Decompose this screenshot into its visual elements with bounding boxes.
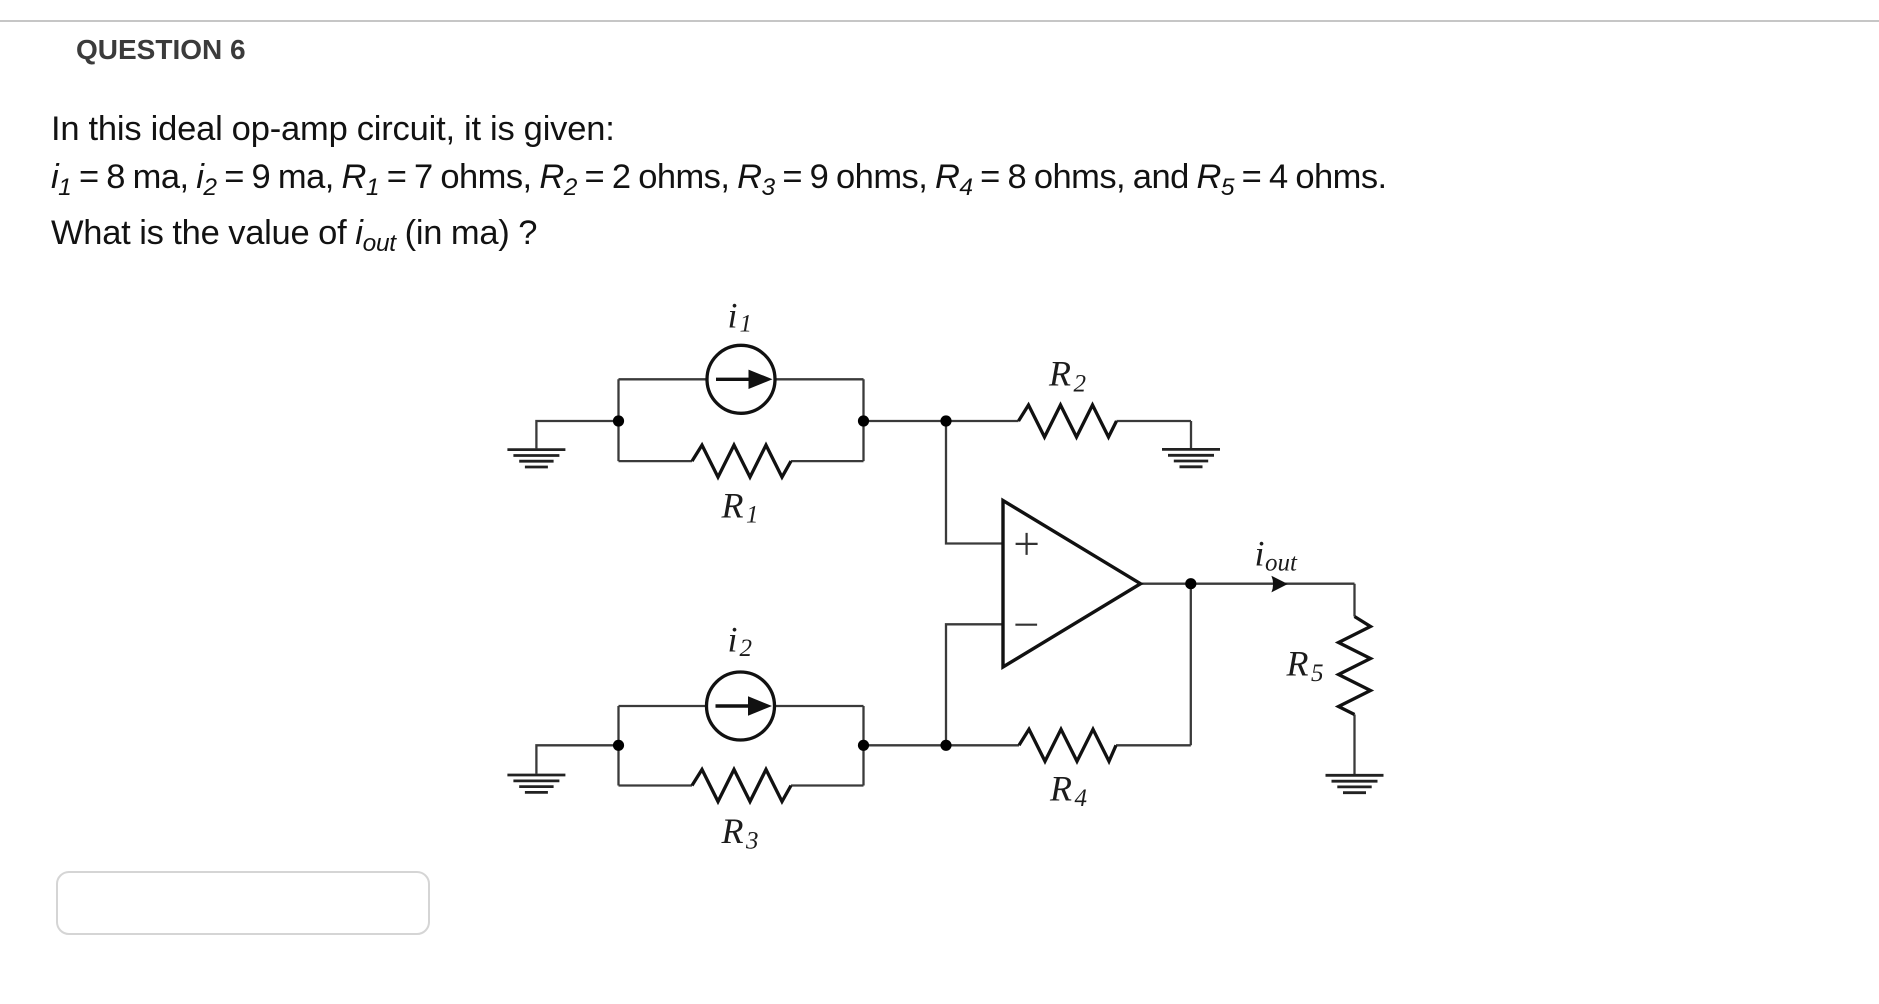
svg-text:R: R <box>721 811 744 851</box>
resistor R5 <box>1339 617 1371 715</box>
resistor R3 <box>692 770 791 802</box>
op-amp minus pin marker <box>1015 624 1037 626</box>
ground bottom-left <box>507 775 565 792</box>
svg-text:i: i <box>728 620 738 660</box>
resistor R2 <box>1019 405 1117 437</box>
wire bottom node line to R4 <box>864 744 1191 746</box>
svg-text:R: R <box>1048 354 1071 394</box>
body text line 1 <box>51 112 615 147</box>
svg-text:2: 2 <box>740 635 753 662</box>
svg-text:R: R <box>1286 644 1309 684</box>
top divider rule <box>0 20 1879 22</box>
wire bottom parallel-block rectangle <box>619 706 864 786</box>
op-amp plus pin marker <box>1016 533 1038 555</box>
node dot top-right of block1 <box>858 415 869 426</box>
svg-text:i: i <box>1255 534 1265 574</box>
node dot noninverting branch <box>940 415 951 426</box>
svg-text:i: i <box>728 296 738 336</box>
answer input box <box>56 871 430 935</box>
wire ground stub bottom-left <box>536 745 618 774</box>
svg-text:R: R <box>1049 769 1072 809</box>
wire output node to R4 vertical <box>1190 584 1192 746</box>
wire top parallel-block rectangle <box>619 379 864 461</box>
iout arrowhead <box>1271 576 1287 593</box>
svg-text:4: 4 <box>1075 785 1088 812</box>
ground top-right <box>1162 449 1220 466</box>
svg-text:1: 1 <box>740 311 753 338</box>
wire ground stub top-left <box>536 421 618 448</box>
node dot bottom-left <box>613 740 624 751</box>
ground top-left <box>507 450 565 467</box>
current source i1 <box>707 345 775 413</box>
op-amp U1 <box>1003 501 1141 668</box>
wire inverting branch <box>946 624 1003 745</box>
wire R5 to ground <box>1353 715 1355 775</box>
body text line 3 <box>51 216 537 262</box>
wire op-amp output to R5 <box>1141 584 1355 617</box>
wire top node line to R2 and to right ground <box>864 421 1192 448</box>
svg-text:3: 3 <box>745 828 759 855</box>
heading QUESTION 6 <box>76 36 246 64</box>
resistor R4 <box>1019 729 1116 761</box>
current source i2 <box>707 672 775 740</box>
node dot inverting branch <box>940 740 951 751</box>
svg-text:5: 5 <box>1311 660 1324 687</box>
ground bottom-right (R5) <box>1326 775 1384 792</box>
svg-text:out: out <box>1265 550 1298 577</box>
node dot op-amp output <box>1185 578 1196 589</box>
svg-text:1: 1 <box>746 502 759 529</box>
svg-text:2: 2 <box>1074 371 1087 398</box>
node dot bottom-right of block2 <box>858 740 869 751</box>
node dot top-left <box>613 415 624 426</box>
svg-text:R: R <box>721 485 744 525</box>
resistor R1 <box>692 445 791 477</box>
body text line 2 <box>51 160 1387 206</box>
wire noninverting branch <box>946 421 1003 544</box>
